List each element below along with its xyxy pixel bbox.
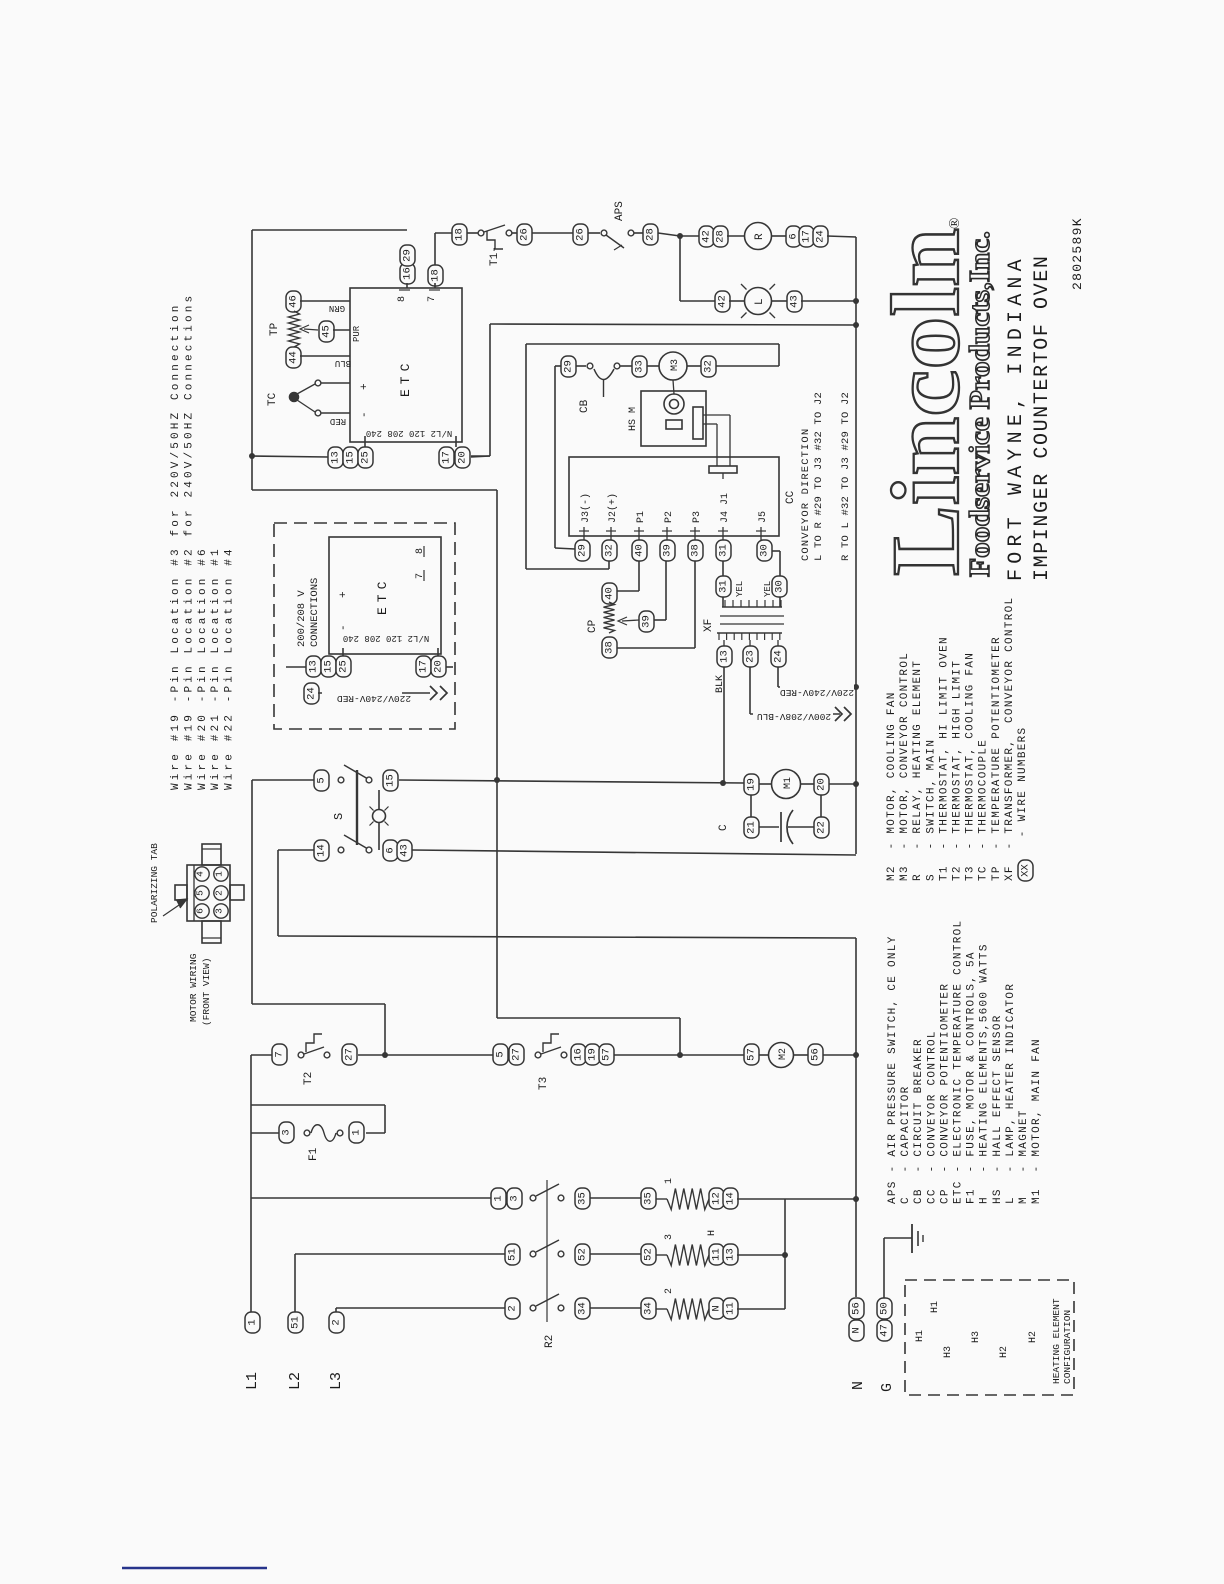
svg-text:APS: APS: [614, 201, 626, 221]
wire number pill 25: [336, 656, 351, 677]
svg-text:- WIRE NUMBERS: - WIRE NUMBERS: [1017, 727, 1029, 853]
junction: [853, 322, 859, 328]
wire: [820, 795, 822, 817]
wire number pill 30: [757, 540, 772, 561]
wire: [471, 455, 490, 457]
wire ETC pin7 stub: [434, 283, 436, 288]
wire: [322, 412, 351, 414]
svg-text:13: 13: [308, 660, 320, 673]
contact: [337, 1130, 343, 1136]
wire number pill 14: [723, 1188, 738, 1209]
svg-text:20: 20: [816, 778, 828, 791]
R2 actuator bar: [546, 1180, 548, 1322]
wire: [286, 666, 306, 668]
svg-text:S - SWITCH, MAIN: S - SWITCH, MAIN: [925, 739, 937, 881]
wire number pill 45: [319, 321, 334, 342]
stub: [437, 648, 439, 656]
svg-text:51: 51: [507, 1248, 519, 1261]
wire: [555, 365, 561, 367]
wire number pill 6: [786, 226, 801, 247]
svg-text:17: 17: [801, 230, 813, 243]
junction: [853, 1052, 859, 1058]
wire long vertical x497: [496, 490, 498, 1018]
connector bottom tab: [202, 921, 221, 943]
svg-text:25: 25: [338, 660, 350, 673]
svg-text:23: 23: [745, 650, 757, 663]
S actuator bar: [356, 770, 358, 845]
pin stub P2: [666, 527, 668, 540]
wire lamp return: [412, 850, 856, 855]
wire number pill 11: [723, 1298, 738, 1319]
connector body: [187, 865, 230, 921]
svg-text:57: 57: [746, 1048, 758, 1061]
svg-text:47: 47: [879, 1324, 891, 1337]
ground bar mid: [917, 1231, 919, 1246]
stub: [723, 640, 725, 646]
motor M3 conveyor: [659, 352, 687, 380]
wire ETC pin8 stub: [406, 283, 408, 288]
svg-text:43: 43: [399, 844, 411, 857]
junction: [494, 777, 500, 783]
wire: [532, 232, 573, 234]
svg-text:26: 26: [575, 228, 587, 241]
svg-text:44: 44: [288, 351, 300, 364]
svg-text:11: 11: [711, 1248, 723, 1261]
svg-text:31: 31: [718, 544, 730, 557]
svg-text:N/L2 120 208 240: N/L2 120 208 240: [366, 428, 452, 438]
svg-text:24: 24: [306, 687, 318, 700]
svg-text:FORT WAYNE, INDIANA: FORT WAYNE, INDIANA: [1005, 254, 1028, 581]
svg-text:YEL: YEL: [735, 581, 745, 597]
svg-text:42: 42: [701, 230, 713, 243]
circuit breaker CB arc: [594, 369, 614, 380]
svg-text:28: 28: [715, 230, 727, 243]
svg-text:-: -: [338, 624, 350, 631]
wire number pill 47: [877, 1320, 892, 1341]
svg-text:P1: P1: [636, 511, 647, 523]
svg-text:+: +: [338, 591, 350, 598]
wire number pill 40: [632, 540, 647, 561]
wire number pill 52: [641, 1244, 656, 1265]
arrow 220V/240V: [430, 686, 437, 700]
wire number pill 38: [602, 637, 617, 658]
contact: [338, 777, 344, 783]
wire number pill 42: [715, 291, 730, 312]
svg-text:34: 34: [577, 1302, 589, 1315]
ETC box alternate connections: [329, 537, 441, 654]
pin stub P3: [694, 527, 696, 540]
lamp L: [745, 288, 772, 315]
wire GRN: [300, 300, 350, 302]
wire drop to lamp branch: [679, 236, 681, 301]
wire number pill 27: [342, 1044, 357, 1065]
wire number pill 43: [787, 291, 802, 312]
wire: [277, 850, 279, 936]
wire BLU: [300, 355, 350, 357]
svg-text:HEATING ELEMENT: HEATING ELEMENT: [1051, 1298, 1062, 1384]
svg-text:14: 14: [725, 1192, 737, 1205]
svg-text:2802589K: 2802589K: [1070, 217, 1085, 290]
wire number pill 1: [491, 1188, 506, 1209]
wire: [251, 1104, 385, 1106]
wire number pill 52: [575, 1244, 590, 1265]
svg-text:H1: H1: [915, 1330, 926, 1342]
wire number pill 3: [507, 1188, 522, 1209]
connector pin 6: [195, 904, 209, 918]
svg-text:YEL: YEL: [763, 581, 773, 597]
wire: [294, 1254, 296, 1312]
wire 220V arrow: [318, 692, 430, 694]
wire: [554, 366, 556, 548]
svg-text:3: 3: [664, 1234, 675, 1240]
CP wiper arrow: [622, 620, 639, 621]
wire number pill 13: [328, 447, 343, 468]
svg-text:N: N: [711, 1305, 723, 1311]
wire number pill 20: [431, 656, 446, 677]
contact: [315, 380, 321, 386]
svg-text:13: 13: [330, 451, 342, 464]
wire: [729, 300, 744, 302]
connector top tab: [202, 844, 221, 865]
relay coil R: [745, 223, 772, 250]
svg-text:13: 13: [719, 650, 731, 663]
wire element common: [784, 1199, 786, 1309]
junction: [853, 1196, 859, 1202]
wire: [590, 1307, 641, 1309]
contact: [558, 1195, 564, 1201]
svg-text:J3(-): J3(-): [580, 493, 592, 523]
wire: [716, 424, 718, 466]
svg-text:30: 30: [774, 580, 786, 593]
wire number pill 17: [799, 226, 814, 247]
svg-text:29: 29: [577, 544, 589, 557]
wire: [703, 423, 717, 425]
wire: [335, 1308, 337, 1312]
contact: [558, 1251, 564, 1257]
svg-text:3: 3: [509, 1195, 521, 1201]
wire number pill 21: [744, 817, 759, 838]
wire: [801, 300, 856, 302]
wire: [779, 597, 781, 607]
wire number pill 39: [639, 611, 654, 632]
wire number pill 34: [575, 1298, 590, 1319]
svg-text:G: G: [879, 1383, 896, 1392]
svg-text:L: L: [754, 298, 766, 305]
wire: [665, 561, 667, 620]
wire: [737, 1198, 856, 1200]
svg-text:Wire #19 -Pin Location #2 for: Wire #19 -Pin Location #2 for 240V/50HZ …: [183, 293, 195, 790]
svg-text:T1 - THERMOSTAT, HI LIMIT OVE: T1 - THERMOSTAT, HI LIMIT OVEN: [938, 636, 950, 881]
pin stub J2(+): [610, 527, 612, 540]
motor M1: [772, 770, 801, 799]
svg-text:1: 1: [664, 1178, 675, 1184]
svg-text:11: 11: [725, 1302, 737, 1315]
svg-text:M3 - MOTOR, CONVEYOR CONTROL: M3 - MOTOR, CONVEYOR CONTROL: [899, 652, 911, 881]
svg-text:35: 35: [577, 1192, 589, 1205]
contact: [338, 847, 344, 853]
conveyor control connector box CC: [569, 457, 779, 536]
wire number pill 43: [397, 840, 412, 861]
connector pin 1: [214, 867, 228, 881]
svg-text:M2 - MOTOR, COOLING FAN: M2 - MOTOR, COOLING FAN: [886, 691, 898, 881]
svg-text:T3 - THERMOSTAT, COOLING FAN: T3 - THERMOSTAT, COOLING FAN: [965, 652, 977, 881]
wire L3 run: [336, 1307, 505, 1309]
switch pilot lamp: [373, 810, 386, 823]
wire: [497, 1017, 680, 1019]
junction: [853, 781, 859, 787]
connector pin 5: [195, 886, 209, 900]
svg-text:ETC - ELECTRONIC TEMPERATURE C: ETC - ELECTRONIC TEMPERATURE CONTROL: [953, 920, 965, 1204]
svg-text:R: R: [754, 233, 766, 240]
svg-text:TP - TEMPERATURE POTENTIOMETE: TP - TEMPERATURE POTENTIOMETER: [991, 636, 1003, 881]
wire L1 run: [251, 1197, 491, 1199]
wire number pill 24: [813, 226, 828, 247]
svg-text:CONNECTIONS: CONNECTIONS: [309, 578, 321, 647]
wire: [366, 1132, 385, 1134]
wire number pill 16: [400, 263, 415, 284]
contact: [530, 1251, 536, 1257]
junction: [382, 1052, 388, 1058]
wire left drop: [250, 1055, 252, 1312]
svg-text:19: 19: [587, 1048, 599, 1061]
XF core: [720, 623, 784, 625]
wire number pill 56: [849, 1298, 864, 1319]
svg-text:RED: RED: [330, 416, 346, 426]
XF primary winding: [722, 606, 782, 608]
wire: [526, 568, 609, 570]
svg-text:6: 6: [788, 233, 800, 239]
wire number pill 15: [321, 656, 336, 677]
wire number pill 50: [877, 1298, 892, 1319]
wire: [322, 382, 351, 384]
wire number pill 16: [571, 1044, 586, 1065]
svg-text:200/208 V: 200/208 V: [296, 590, 308, 647]
svg-text:16: 16: [402, 267, 414, 280]
svg-text:12: 12: [711, 1192, 723, 1205]
svg-text:CONVEYOR DIRECTION: CONVEYOR DIRECTION: [800, 428, 812, 561]
wire number pill 6: [383, 840, 398, 861]
svg-text:30: 30: [759, 544, 771, 557]
wire left feed vertical: [251, 230, 253, 490]
svg-text:P3: P3: [692, 511, 703, 523]
wire number pill 56: [808, 1044, 823, 1065]
wire number pill 2: [505, 1298, 520, 1319]
svg-text:XX: XX: [1020, 864, 1032, 877]
wire: [788, 826, 814, 828]
contact: [628, 230, 634, 236]
pin N/L2 stub: [455, 436, 457, 447]
wire: [590, 1197, 641, 1199]
svg-text:P2: P2: [664, 511, 675, 523]
svg-text:M2: M2: [778, 1048, 789, 1060]
svg-text:40: 40: [634, 544, 646, 557]
S blade upper: [344, 765, 368, 779]
wire number pill 51: [288, 1312, 303, 1333]
wire: [722, 473, 724, 479]
wire: [525, 344, 527, 569]
pin stub J5: [760, 527, 762, 540]
contact: [561, 1052, 567, 1058]
wire 220V tap: [778, 686, 856, 688]
wire number pill N: [709, 1298, 724, 1319]
wire: [384, 1004, 386, 1055]
wire long rail y324: [490, 324, 856, 325]
svg-text:(FRONT VIEW): (FRONT VIEW): [201, 958, 212, 1026]
wire: [621, 365, 633, 367]
svg-text:J4 J1: J4 J1: [720, 493, 731, 523]
wire: [729, 415, 731, 466]
air pressure switch APS blade: [606, 235, 624, 248]
svg-text:45: 45: [321, 325, 333, 338]
svg-text:5: 5: [495, 1051, 507, 1057]
wire number pill 29: [561, 356, 576, 377]
junction: [677, 1052, 683, 1058]
svg-text:6: 6: [385, 847, 397, 853]
svg-text:L - LAMP, HEATER INDICATOR: L - LAMP, HEATER INDICATOR: [1005, 983, 1017, 1204]
wire: [638, 561, 640, 591]
arrow 200V/208V: [835, 707, 842, 721]
svg-text:T3: T3: [538, 1077, 550, 1090]
junction: [720, 780, 726, 786]
wire number pill 57: [599, 1044, 614, 1065]
svg-text:CP - CONVEYOR POTENTIOMETER: CP - CONVEYOR POTENTIOMETER: [939, 983, 951, 1204]
svg-text:35: 35: [643, 1192, 655, 1205]
svg-text:46: 46: [288, 295, 300, 308]
svg-text:H: H: [707, 1230, 718, 1236]
svg-text:T2: T2: [303, 1072, 315, 1085]
svg-text:40: 40: [604, 587, 616, 600]
svg-text:CC: CC: [785, 490, 797, 504]
svg-text:Wire #22 -Pin Location #4: Wire #22 -Pin Location #4: [224, 546, 236, 790]
wire: [471, 456, 490, 457]
contact: [535, 1052, 541, 1058]
svg-text:42: 42: [717, 295, 729, 308]
svg-text:L2: L2: [287, 1372, 304, 1390]
svg-text:7: 7: [274, 1051, 286, 1057]
wire: [759, 826, 779, 828]
svg-text:CB - CIRCUIT BREAKER: CB - CIRCUIT BREAKER: [913, 1038, 925, 1204]
contact: [587, 363, 593, 369]
wire: [647, 365, 659, 367]
svg-text:16: 16: [573, 1048, 585, 1061]
svg-text:H2: H2: [1028, 1331, 1039, 1343]
wire: [679, 1018, 681, 1055]
svg-text:C - CAPACITOR: C - CAPACITOR: [900, 1085, 912, 1204]
contact: [304, 1130, 310, 1136]
svg-text:R - RELAY, HEATING ELEMENT: R - RELAY, HEATING ELEMENT: [912, 660, 924, 881]
thermostat T1 chain wire: [435, 232, 452, 234]
wire number pill 31: [716, 576, 731, 597]
svg-text:MOTOR WIRING: MOTOR WIRING: [188, 953, 199, 1022]
heater indicator lamp L chain: [680, 300, 715, 302]
svg-text:33: 33: [634, 360, 646, 373]
svg-text:Wire #20 -Pin Location #6: Wire #20 -Pin Location #6: [197, 546, 209, 790]
wire top feed horizontal: [252, 229, 407, 231]
TC lead: [297, 384, 315, 394]
svg-text:18: 18: [454, 228, 466, 241]
wire number pill 27: [509, 1044, 524, 1065]
svg-text:34: 34: [643, 1302, 655, 1315]
wire: [779, 551, 781, 576]
stub: [342, 648, 344, 656]
wire y490: [252, 489, 497, 491]
heating element H1: [667, 1189, 709, 1210]
svg-text:+: +: [359, 383, 371, 390]
svg-text:ETC: ETC: [375, 577, 390, 615]
svg-text:POLARIZING TAB: POLARIZING TAB: [149, 843, 160, 923]
contact: [601, 230, 607, 236]
svg-text:CP: CP: [587, 619, 599, 633]
wire number pill 1: [245, 1312, 260, 1333]
wire: [801, 783, 815, 785]
svg-text:27: 27: [344, 1048, 356, 1061]
svg-text:15: 15: [323, 660, 335, 673]
wire: [614, 1054, 744, 1056]
wire number pill 7: [272, 1044, 287, 1065]
ground bar short: [922, 1235, 924, 1242]
pin stub J4 J1: [722, 527, 724, 540]
wire number pill 25: [358, 447, 373, 468]
svg-text:29: 29: [563, 360, 575, 373]
junction: [677, 233, 683, 239]
pin 7 tick: [429, 289, 440, 291]
stub: [777, 640, 779, 646]
svg-text:50: 50: [879, 1302, 891, 1315]
wire: [251, 1132, 279, 1134]
wire: [555, 548, 575, 549]
thermostat T3 step symbol: [543, 1034, 559, 1052]
wire number pill 19: [744, 774, 759, 795]
wire number pill 13: [306, 656, 321, 677]
connector left tab: [175, 885, 187, 900]
svg-text:ETC: ETC: [398, 359, 413, 397]
svg-text:15: 15: [345, 451, 357, 464]
svg-text:27: 27: [511, 1048, 523, 1061]
junction: [249, 453, 255, 459]
stub: [749, 640, 751, 646]
wire: [384, 1105, 386, 1133]
svg-text:N/L2 120 208 240: N/L2 120 208 240: [343, 633, 429, 643]
svg-text:Wire #21 -Pin Location #1: Wire #21 -Pin Location #1: [210, 546, 222, 790]
wire number pill 28: [643, 224, 658, 245]
wire: [634, 232, 643, 234]
svg-text:14: 14: [316, 844, 328, 857]
wire: [680, 235, 699, 237]
hall effect sensor HS and magnet M box: [641, 391, 706, 446]
wire right rail upper vertical: [855, 237, 857, 854]
wire: [703, 414, 730, 416]
wire number pill 12: [709, 1188, 724, 1209]
S blade lower: [344, 835, 368, 849]
wire: [722, 561, 724, 576]
wire: [608, 561, 610, 569]
svg-text:R TO L #32 TO J3 #29 TO J2: R TO L #32 TO J3 #29 TO J2: [840, 392, 852, 561]
wire: [252, 779, 314, 781]
electronic temperature control ETC box: [350, 288, 462, 442]
connector J1 bar: [709, 466, 737, 473]
svg-text:18: 18: [430, 269, 442, 282]
svg-text:2: 2: [331, 1319, 343, 1325]
wire: [778, 344, 780, 366]
svg-text:F1: F1: [308, 1147, 320, 1161]
T2 blade: [304, 1047, 324, 1054]
R2 blade 2: [536, 1240, 559, 1252]
wire 200V tap: [750, 713, 840, 715]
wire: [687, 365, 701, 367]
wire number pill 20: [455, 447, 470, 468]
thermostat T2 step symbol: [306, 1034, 322, 1052]
wire number pill 31: [716, 540, 731, 561]
